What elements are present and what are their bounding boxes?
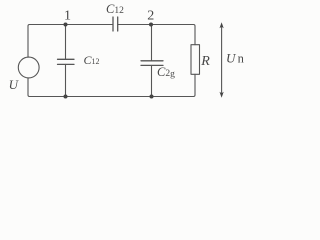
svg-text:C2g: C2g — [157, 65, 175, 80]
capacitor C12 shunt plates — [58, 59, 75, 64]
node 1 junction dot — [64, 23, 68, 27]
svg-text:C12: C12 — [84, 53, 100, 67]
wire bottom — [28, 78, 194, 97]
capacitor C2g plates — [141, 61, 163, 66]
svg-text:U: U — [9, 77, 20, 92]
svg-text:C12: C12 — [106, 2, 124, 16]
resistor R body — [191, 45, 200, 75]
svg-text:2: 2 — [147, 8, 154, 23]
wire resistor bottom to ground — [194, 74, 196, 96]
bottom junction dot under node 2 — [150, 95, 154, 99]
wire node1 to C12 shunt top — [65, 25, 67, 60]
wire C12 shunt bottom — [65, 64, 67, 96]
node 2 junction dot — [149, 23, 153, 27]
svg-text:1: 1 — [64, 9, 71, 24]
arrowhead down of Un — [220, 92, 224, 98]
arrowhead up of Un — [220, 22, 224, 28]
svg-text:Un: Un — [226, 51, 245, 66]
voltage source U — [18, 57, 39, 78]
bottom junction dot under node 1 — [64, 95, 68, 99]
svg-text:R: R — [200, 54, 210, 69]
wire top-left segment — [28, 25, 113, 58]
wire top-right segment — [118, 25, 195, 45]
voltage arrow Un line — [221, 27, 223, 94]
capacitor C12 series plates (top) — [113, 17, 118, 31]
wire C2g bottom — [151, 65, 153, 96]
wire node2 to C2g top — [151, 25, 153, 61]
